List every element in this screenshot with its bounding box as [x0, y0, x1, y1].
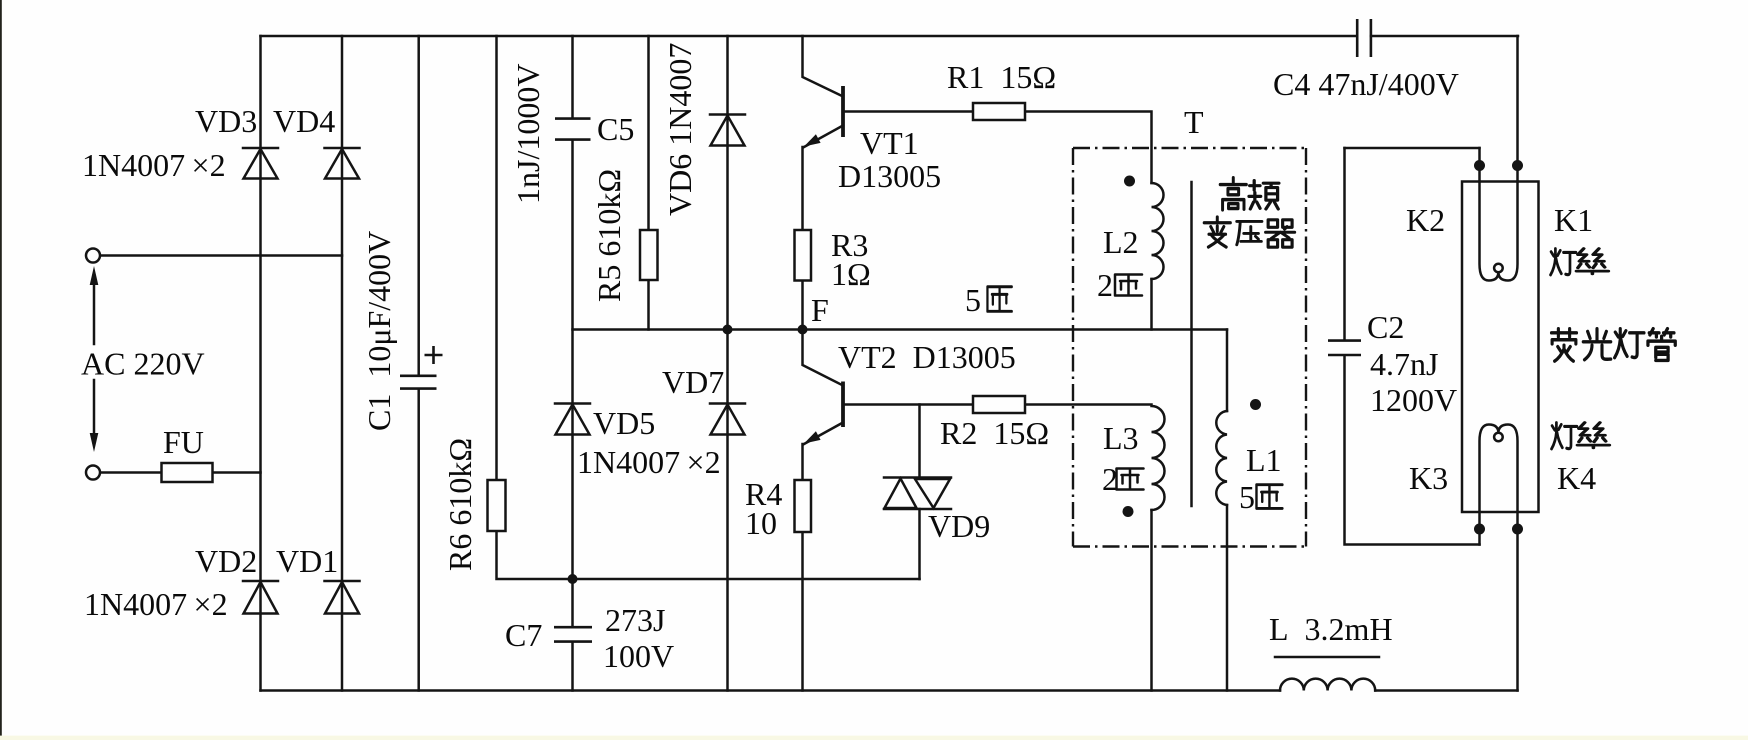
svg-text:T: T: [1184, 104, 1204, 140]
svg-text:L1: L1: [1246, 442, 1282, 478]
svg-text:R1 15Ω: R1 15Ω: [947, 59, 1056, 95]
svg-text:VD2: VD2: [195, 543, 257, 579]
svg-text:1nJ/1000V: 1nJ/1000V: [510, 64, 546, 204]
svg-text:10: 10: [745, 505, 777, 541]
svg-text:100V: 100V: [603, 638, 674, 674]
svg-text:L 3.2mH: L 3.2mH: [1269, 611, 1393, 647]
svg-text:VD6 1N4007: VD6 1N4007: [662, 43, 698, 216]
svg-text:AC 220V: AC 220V: [81, 346, 205, 382]
svg-text:R2 15Ω: R2 15Ω: [940, 415, 1049, 451]
svg-text:F: F: [811, 292, 829, 328]
svg-text:5: 5: [1239, 479, 1255, 515]
svg-text:K3: K3: [1409, 460, 1448, 496]
svg-text:VD7: VD7: [662, 364, 724, 400]
svg-text:C1 10μF/400V: C1 10μF/400V: [361, 231, 397, 431]
svg-text:K4: K4: [1557, 460, 1596, 496]
svg-text:L3: L3: [1103, 420, 1139, 456]
svg-text:4.7nJ: 4.7nJ: [1370, 346, 1438, 382]
svg-text:VD1: VD1: [276, 543, 338, 579]
svg-text:C2: C2: [1367, 309, 1404, 345]
svg-text:1Ω: 1Ω: [831, 256, 871, 292]
svg-text:1N4007 ×2: 1N4007 ×2: [82, 147, 226, 183]
svg-text:VD5: VD5: [593, 405, 655, 441]
svg-text:K2: K2: [1406, 202, 1445, 238]
svg-text:VD4: VD4: [273, 103, 335, 139]
svg-text:R5 610kΩ: R5 610kΩ: [591, 169, 627, 302]
svg-text:1200V: 1200V: [1370, 382, 1457, 418]
svg-text:VT2 D13005: VT2 D13005: [838, 339, 1016, 375]
svg-text:VT1: VT1: [860, 125, 919, 161]
svg-text:2: 2: [1097, 267, 1113, 303]
svg-text:C7: C7: [505, 617, 542, 653]
svg-text:VD3: VD3: [195, 103, 257, 139]
svg-text:L2: L2: [1103, 224, 1139, 260]
svg-text:D13005: D13005: [838, 158, 941, 194]
svg-text:C4 47nJ/400V: C4 47nJ/400V: [1273, 66, 1459, 102]
svg-text:5: 5: [965, 282, 981, 318]
svg-text:1N4007 ×2: 1N4007 ×2: [84, 586, 228, 622]
svg-text:273J: 273J: [605, 602, 665, 638]
svg-text:R6 610kΩ: R6 610kΩ: [442, 438, 478, 571]
svg-text:C5: C5: [597, 111, 634, 147]
svg-text:VD9: VD9: [928, 508, 990, 544]
svg-text:1N4007 ×2: 1N4007 ×2: [577, 444, 721, 480]
svg-text:K1: K1: [1554, 202, 1593, 238]
svg-text:FU: FU: [163, 424, 204, 460]
